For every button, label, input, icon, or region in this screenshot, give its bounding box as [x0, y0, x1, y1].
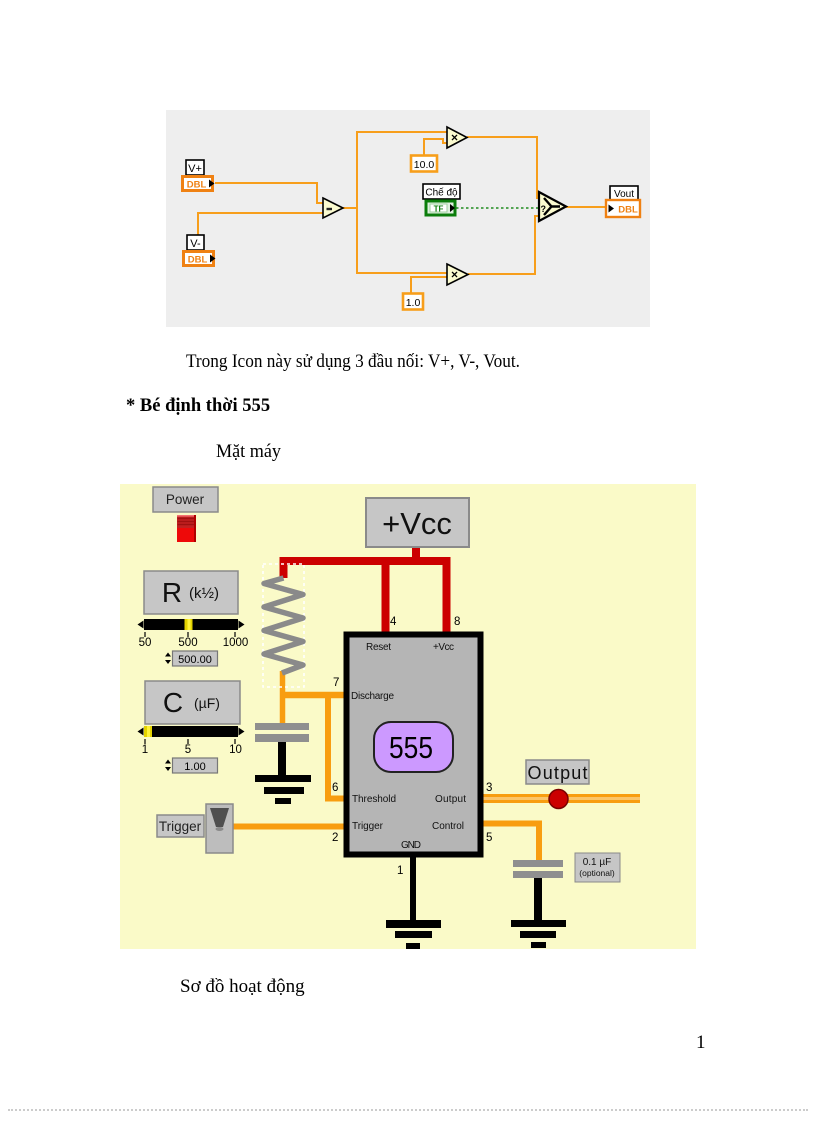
- capacitor C plates: [255, 723, 309, 742]
- pin name Trigger: [352, 821, 384, 832]
- trigger push button: [206, 804, 233, 853]
- C (uF) label: [145, 681, 240, 724]
- constant 10.0: [411, 156, 437, 172]
- node label V+: [186, 160, 204, 175]
- ground (pin 1): [386, 920, 441, 949]
- pin number 5: [486, 832, 492, 844]
- svg-text:8: 8: [454, 616, 460, 628]
- panel background: [120, 484, 696, 949]
- svg-text:Discharge: Discharge: [351, 691, 394, 702]
- Output label: [526, 760, 589, 784]
- svg-text:10.0: 10.0: [414, 159, 435, 171]
- wire: subtract output to branch trunk: [343, 207, 357, 209]
- +Vcc source label: [366, 498, 469, 547]
- capacitor C lead to ground: [278, 742, 286, 777]
- svg-text:1: 1: [142, 744, 148, 756]
- R numeric display 500.00: [165, 651, 218, 666]
- ground (bypass capacitor): [511, 920, 566, 948]
- svg-text:×: ×: [451, 268, 458, 282]
- wire: pin 3 Output run: [477, 794, 640, 803]
- svg-text:(k½): (k½): [189, 585, 219, 602]
- pin name GND: [401, 840, 421, 851]
- bypass capacitor lead: [534, 878, 542, 924]
- svg-text:5: 5: [486, 832, 492, 844]
- 0.1 uF (optional) label: [575, 853, 620, 882]
- ground (capacitor C): [255, 775, 311, 804]
- svg-text:R: R: [162, 577, 182, 608]
- svg-text:Reset: Reset: [366, 642, 391, 653]
- figure 2: 555 timer front panel: [120, 484, 696, 949]
- wire: multiply U3 output to select bottom input: [468, 216, 540, 274]
- terminal DBL (Vout indicator): [606, 200, 640, 217]
- wire: node to pin 7 Discharge: [281, 692, 350, 699]
- svg-text:Trigger: Trigger: [159, 819, 202, 834]
- Power label button: [153, 487, 218, 512]
- wire: +Vcc red supply bus: [281, 547, 451, 561]
- wire: V- to subtract lower input: [198, 213, 324, 251]
- node label Vout: [610, 186, 638, 200]
- svg-text:V-: V-: [190, 238, 201, 250]
- svg-text:50: 50: [139, 637, 152, 649]
- R (kOhm) label: [144, 571, 238, 614]
- wire: red drop to resistor R top: [280, 557, 288, 578]
- svg-text:7: 7: [333, 677, 339, 689]
- wire: V+ to subtract upper input: [215, 183, 324, 203]
- subheading: Mat may: [216, 442, 281, 461]
- Trigger label: [157, 815, 204, 837]
- pin number 4: [390, 616, 397, 628]
- pin name Control: [432, 821, 464, 832]
- R slider: [138, 619, 249, 649]
- svg-text:1000: 1000: [223, 637, 249, 649]
- wire: constant 1.0 to multiply U3: [411, 277, 447, 293]
- svg-text:2: 2: [332, 832, 338, 844]
- IC U1 555 body: [347, 635, 481, 855]
- wire: boolean TF to select (green dotted): [456, 207, 540, 209]
- pin number 8: [454, 616, 460, 628]
- pin name Discharge: [351, 691, 394, 702]
- svg-text:(optional): (optional): [579, 868, 615, 878]
- svg-text:(µF): (µF): [194, 695, 220, 711]
- svg-text:Output: Output: [435, 794, 466, 805]
- C slider: [138, 726, 245, 756]
- svg-text:?: ?: [541, 204, 547, 214]
- diagram background: [166, 110, 650, 327]
- svg-text:Threshold: Threshold: [352, 794, 396, 805]
- constant 1.0: [403, 294, 423, 310]
- multiply function U3: [447, 264, 468, 285]
- svg-text:Control: Control: [432, 821, 464, 832]
- heading: * Be dinh thoi 555: [126, 396, 270, 415]
- resistor R zigzag: [264, 578, 303, 673]
- svg-text:+Vcc: +Vcc: [382, 506, 452, 541]
- footer dotted rule: [8, 1109, 808, 1111]
- page number: [696, 1033, 706, 1052]
- pin number 2: [332, 832, 338, 844]
- svg-text:TF: TF: [434, 205, 444, 214]
- svg-text:Output: Output: [528, 763, 588, 783]
- pin number 3: [486, 782, 492, 794]
- svg-text:GND: GND: [401, 840, 421, 851]
- wire: constant 10.0 to multiply U2: [424, 139, 447, 155]
- resistor R selection marquee: [263, 564, 304, 687]
- svg-text:500: 500: [178, 637, 197, 649]
- terminal TF (boolean control): [426, 201, 455, 215]
- svg-text:500.00: 500.00: [178, 654, 212, 666]
- pin name Reset: [366, 642, 391, 653]
- wire: top branch to multiply U2: [356, 131, 447, 133]
- 555 badge: [374, 722, 453, 772]
- node label V-: [187, 235, 204, 250]
- select function U4: [539, 192, 566, 221]
- svg-text:C: C: [163, 687, 183, 718]
- wire: select output to Vout: [566, 206, 607, 208]
- wire: trunk vertical branch: [356, 132, 358, 273]
- svg-text:555: 555: [389, 730, 433, 765]
- wire: multiply U2 output to select top input: [467, 137, 540, 198]
- wire: pin 7 to pin 6 Threshold link: [325, 695, 350, 799]
- C numeric display 1.00: [165, 758, 218, 773]
- subtract function U1: [323, 198, 343, 218]
- wire: pin 1 GND lead: [410, 857, 416, 924]
- svg-text:Chế độ: Chế độ: [425, 187, 458, 199]
- pin number 1: [397, 865, 403, 877]
- wire: trigger button to pin 2 Trigger: [233, 824, 350, 830]
- wire: resistor bottom to capacitor C top (orange): [280, 671, 286, 725]
- svg-text:Power: Power: [166, 492, 205, 507]
- svg-text:4: 4: [390, 616, 397, 628]
- caption: So do hoat dong: [180, 977, 305, 996]
- svg-text:5: 5: [185, 744, 191, 756]
- caption under figure 1: [186, 352, 520, 371]
- svg-text:1: 1: [397, 865, 403, 877]
- power rocker switch: [177, 515, 196, 542]
- node label Che do: [423, 184, 460, 199]
- svg-text:+Vcc: +Vcc: [433, 642, 454, 653]
- wire: red drop to pin 8 +Vcc: [443, 561, 451, 634]
- pin number 7: [333, 677, 339, 689]
- pin number 6: [332, 782, 338, 794]
- pin name Output: [435, 794, 466, 805]
- svg-text:×: ×: [451, 131, 458, 145]
- svg-text:V+: V+: [188, 163, 202, 175]
- figure 1: LabVIEW block diagram: [166, 110, 650, 327]
- wire: bottom branch to multiply U3: [356, 272, 447, 274]
- multiply function U2: [447, 127, 467, 148]
- svg-text:10: 10: [229, 744, 242, 756]
- wire: red drop to pin 4 Reset: [382, 561, 390, 634]
- svg-text:Trigger: Trigger: [352, 821, 384, 832]
- svg-text:6: 6: [332, 782, 338, 794]
- wire: pin 5 Control to bypass cap: [477, 824, 539, 862]
- svg-text:DBL: DBL: [187, 180, 207, 191]
- svg-text:1.00: 1.00: [184, 761, 205, 773]
- svg-text:DBL: DBL: [618, 205, 638, 216]
- pin name Threshold: [352, 794, 396, 805]
- terminal DBL (V+ control): [181, 175, 215, 192]
- bypass capacitor 0.1uF plates: [513, 860, 563, 878]
- svg-text:3: 3: [486, 782, 492, 794]
- LED D1 on output: [549, 790, 568, 809]
- svg-text:0.1 µF: 0.1 µF: [583, 857, 612, 868]
- terminal DBL (V- control): [182, 250, 216, 267]
- svg-text:1.0: 1.0: [406, 297, 421, 309]
- pin name +Vcc (pin 8): [433, 642, 454, 653]
- svg-text:Vout: Vout: [614, 189, 634, 200]
- svg-text:DBL: DBL: [188, 255, 208, 266]
